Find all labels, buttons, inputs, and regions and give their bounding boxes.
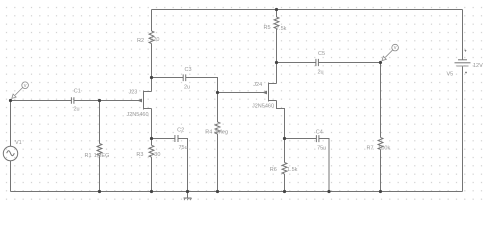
svg-text:R1: R1 — [85, 153, 92, 159]
svg-text:V5: V5 — [447, 72, 454, 78]
svg-text:7.5k: 7.5k — [276, 26, 287, 32]
svg-text:2u: 2u — [74, 107, 80, 113]
svg-text:1MEG: 1MEG — [94, 153, 110, 159]
svg-text:J2N5460: J2N5460 — [127, 112, 149, 118]
svg-text:R3: R3 — [136, 152, 143, 158]
svg-text:R4: R4 — [205, 129, 212, 135]
svg-text:V1: V1 — [15, 140, 22, 146]
svg-text:12V: 12V — [473, 63, 483, 69]
svg-text:R7: R7 — [367, 145, 374, 151]
svg-text:4Meg: 4Meg — [214, 129, 228, 135]
svg-text:75u: 75u — [317, 145, 326, 151]
svg-text:2u: 2u — [318, 70, 324, 76]
svg-text:C1: C1 — [74, 89, 81, 95]
svg-text:R5: R5 — [264, 25, 271, 31]
svg-text:C2: C2 — [177, 127, 184, 133]
svg-text:J24: J24 — [253, 82, 262, 88]
svg-text:C5: C5 — [318, 51, 325, 57]
svg-text:2u: 2u — [184, 84, 190, 90]
svg-text:J2N5460: J2N5460 — [252, 104, 274, 110]
svg-text:30: 30 — [154, 152, 160, 158]
svg-text:100k: 100k — [378, 145, 390, 151]
svg-text:620: 620 — [150, 37, 159, 43]
svg-text:C4: C4 — [316, 129, 323, 135]
svg-text:v: v — [24, 83, 27, 89]
svg-text:1.5k: 1.5k — [287, 167, 298, 173]
svg-text:R2: R2 — [137, 38, 144, 44]
svg-text:J23: J23 — [129, 90, 138, 96]
svg-text:R6: R6 — [270, 167, 277, 173]
svg-text:v: v — [394, 45, 397, 51]
svg-text:C3: C3 — [185, 67, 192, 73]
svg-text:75u: 75u — [179, 145, 188, 151]
